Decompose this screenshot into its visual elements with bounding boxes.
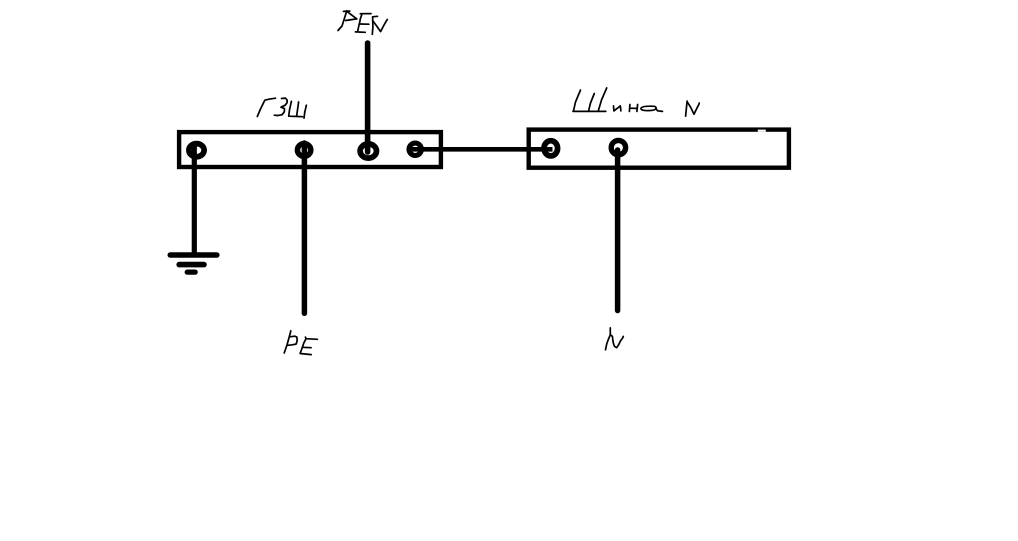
label ГЗШ (handwritten) [257, 98, 306, 118]
terminal 2 (ГЗШ, PE) [297, 144, 310, 157]
brush skip notch on Шина N top edge [758, 130, 766, 132]
ground symbol [170, 255, 217, 272]
terminal 5 (Шина N, link) [544, 141, 558, 156]
wire N drop from Шина N terminal 2 [615, 150, 621, 311]
terminal 6 (Шина N, N) [611, 140, 625, 154]
terminal 1 (ГЗШ, to ground) [189, 144, 204, 157]
label Шина N (handwritten) [573, 88, 699, 116]
busbar ГЗШ box [179, 132, 441, 167]
label N (handwritten) [606, 328, 624, 350]
terminal 3 (ГЗШ, PEN) [360, 144, 376, 158]
wire PE drop from ГЗШ terminal 2 [302, 143, 308, 313]
label PE (handwritten) [284, 331, 317, 355]
busbar Шина N box [529, 130, 789, 168]
wire ground drop from ГЗШ terminal 1 [192, 143, 197, 255]
label PEN (handwritten) [338, 11, 387, 35]
terminal 4 (ГЗШ, link) [409, 143, 421, 155]
wire PEN drop from top [365, 43, 371, 152]
wire link ГЗШ to Шина N [410, 147, 553, 152]
